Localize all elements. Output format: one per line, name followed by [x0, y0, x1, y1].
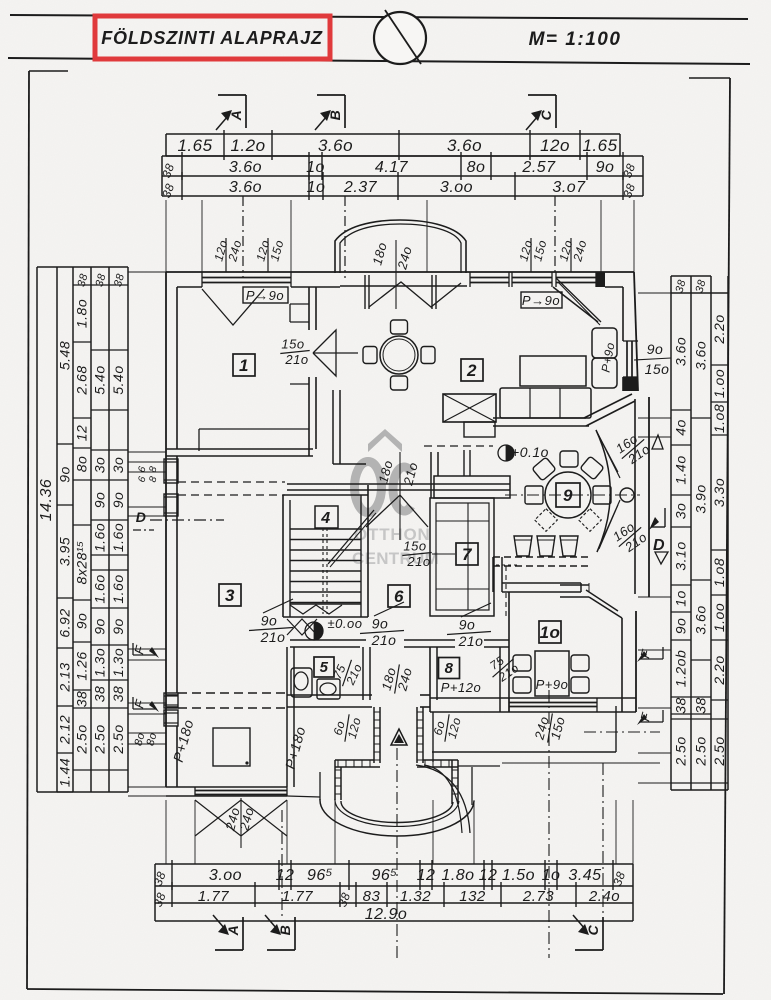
- svg-text:8x28¹⁵: 8x28¹⁵: [74, 541, 90, 585]
- svg-text:9o: 9o: [372, 616, 389, 632]
- svg-text:3.oo: 3.oo: [209, 867, 242, 884]
- svg-text:3.6o: 3.6o: [229, 179, 262, 196]
- svg-text:1.o8: 1.o8: [711, 404, 727, 433]
- svg-text:1.77: 1.77: [282, 888, 313, 905]
- svg-text:1.2ob: 1.2ob: [673, 650, 689, 688]
- svg-text:9o: 9o: [110, 492, 126, 509]
- svg-text:3.6o: 3.6o: [673, 337, 689, 366]
- svg-text:B: B: [277, 925, 293, 936]
- svg-text:3o: 3o: [110, 457, 126, 474]
- svg-text:C: C: [538, 109, 554, 120]
- svg-text:7: 7: [462, 545, 473, 564]
- svg-text:132: 132: [459, 888, 486, 905]
- svg-text:1.77: 1.77: [198, 888, 229, 905]
- svg-text:+0.1o: +0.1o: [511, 444, 549, 460]
- svg-text:2.2o: 2.2o: [711, 655, 727, 685]
- svg-text:2.37: 2.37: [343, 179, 378, 196]
- svg-text:1.65: 1.65: [177, 136, 212, 155]
- svg-text:3o: 3o: [92, 457, 108, 474]
- svg-text:2.12: 2.12: [57, 715, 73, 745]
- svg-text:FÖLDSZINTI ALAPRAJZ: FÖLDSZINTI ALAPRAJZ: [101, 28, 323, 48]
- svg-text:1.5o: 1.5o: [502, 867, 535, 884]
- svg-text:1.6o: 1.6o: [92, 523, 108, 552]
- svg-text:2: 2: [466, 361, 477, 380]
- svg-text:1: 1: [239, 356, 249, 375]
- svg-text:P→9o: P→9o: [246, 288, 284, 303]
- svg-text:3.6o: 3.6o: [318, 136, 353, 155]
- svg-text:14.36: 14.36: [38, 479, 55, 522]
- svg-text:3.1o: 3.1o: [673, 541, 689, 570]
- svg-text:2.2o: 2.2o: [711, 314, 727, 344]
- svg-text:1o: 1o: [542, 867, 561, 884]
- svg-text:15o: 15o: [403, 539, 426, 554]
- svg-text:6.92: 6.92: [57, 608, 73, 637]
- svg-text:3o: 3o: [673, 503, 689, 520]
- svg-text:38: 38: [74, 691, 90, 708]
- svg-text:B: B: [327, 110, 343, 121]
- svg-text:15o: 15o: [281, 337, 304, 352]
- svg-text:9o: 9o: [74, 613, 90, 630]
- svg-text:9o: 9o: [459, 617, 476, 633]
- svg-text:3.oo: 3.oo: [440, 179, 473, 196]
- svg-text:2.5o: 2.5o: [693, 736, 709, 766]
- svg-text:1.8o: 1.8o: [441, 867, 474, 884]
- svg-text:12: 12: [74, 425, 90, 442]
- svg-text:83: 83: [363, 888, 381, 905]
- svg-text:21o: 21o: [371, 632, 397, 648]
- svg-text:1.6o: 1.6o: [110, 523, 126, 552]
- svg-text:3.45: 3.45: [568, 867, 601, 884]
- svg-text:5: 5: [320, 659, 329, 676]
- svg-text:9o: 9o: [57, 466, 73, 483]
- svg-text:5.4o: 5.4o: [92, 365, 108, 394]
- svg-text:1.o8: 1.o8: [711, 558, 727, 587]
- svg-text:9o: 9o: [92, 618, 108, 635]
- svg-text:12: 12: [479, 867, 498, 884]
- svg-text:3.6o: 3.6o: [693, 341, 709, 370]
- svg-text:2.5o: 2.5o: [74, 724, 90, 754]
- svg-text:1.44: 1.44: [57, 758, 73, 787]
- svg-text:M= 1:100: M= 1:100: [529, 29, 622, 50]
- svg-text:21o: 21o: [458, 633, 484, 649]
- svg-text:P+12o: P+12o: [441, 680, 481, 695]
- svg-text:1.oo: 1.oo: [711, 603, 727, 632]
- svg-text:1o: 1o: [307, 179, 326, 196]
- svg-text:9o: 9o: [647, 341, 664, 357]
- svg-text:D: D: [136, 509, 147, 525]
- svg-text:1.65: 1.65: [582, 136, 617, 155]
- svg-text:1.6o: 1.6o: [110, 574, 126, 603]
- svg-text:9o: 9o: [673, 618, 689, 635]
- svg-text:1o: 1o: [540, 623, 561, 642]
- svg-text:1.oo: 1.oo: [711, 369, 727, 398]
- svg-text:9o: 9o: [92, 492, 108, 509]
- svg-text:12: 12: [417, 867, 436, 884]
- svg-text:3.o7: 3.o7: [552, 179, 586, 196]
- svg-text:2.5o: 2.5o: [110, 724, 126, 754]
- svg-text:12.9o: 12.9o: [365, 906, 408, 923]
- svg-text:3: 3: [225, 586, 235, 605]
- svg-text:3.9o: 3.9o: [693, 484, 709, 513]
- svg-text:2.68: 2.68: [74, 365, 90, 395]
- svg-text:A: A: [228, 110, 244, 122]
- svg-text:96⁵: 96⁵: [307, 867, 333, 884]
- svg-text:1.3o: 1.3o: [110, 648, 126, 677]
- svg-text:2.5o: 2.5o: [711, 736, 727, 766]
- svg-text:4: 4: [320, 510, 330, 527]
- svg-text:2.4o: 2.4o: [588, 888, 620, 905]
- svg-text:5.4o: 5.4o: [110, 365, 126, 394]
- svg-text:2.13: 2.13: [57, 662, 73, 692]
- svg-text:9o: 9o: [261, 613, 278, 629]
- svg-text:8o: 8o: [467, 159, 486, 176]
- svg-text:38: 38: [673, 697, 689, 714]
- svg-text:1.3o: 1.3o: [92, 648, 108, 677]
- svg-text:1.26: 1.26: [74, 651, 90, 680]
- svg-text:12o: 12o: [540, 136, 570, 155]
- svg-text:8: 8: [445, 660, 454, 677]
- svg-text:96⁵: 96⁵: [371, 867, 397, 884]
- svg-text:2.57: 2.57: [521, 159, 556, 176]
- svg-text:3.6o: 3.6o: [693, 605, 709, 634]
- svg-text:38: 38: [92, 686, 108, 703]
- svg-text:5.48: 5.48: [57, 341, 73, 370]
- svg-text:4.17: 4.17: [375, 159, 409, 176]
- svg-text:P+9o: P+9o: [536, 677, 569, 692]
- svg-text:4o: 4o: [673, 419, 689, 436]
- svg-text:2.5o: 2.5o: [92, 724, 108, 754]
- svg-text:38: 38: [110, 686, 126, 703]
- svg-text:15o: 15o: [645, 361, 670, 377]
- svg-text:1.2o: 1.2o: [230, 136, 265, 155]
- svg-text:P→9o: P→9o: [522, 293, 560, 308]
- svg-text:21o: 21o: [284, 352, 308, 367]
- svg-text:1.4o: 1.4o: [673, 455, 689, 484]
- svg-text:1o: 1o: [673, 590, 689, 607]
- svg-text:21o: 21o: [260, 629, 286, 645]
- svg-text:9o: 9o: [110, 618, 126, 635]
- svg-text:12: 12: [276, 867, 295, 884]
- svg-text:38: 38: [693, 697, 709, 714]
- svg-text:3.95: 3.95: [57, 537, 73, 566]
- svg-text:3.6o: 3.6o: [229, 159, 262, 176]
- svg-text:8o: 8o: [74, 456, 90, 473]
- svg-text:A: A: [225, 925, 241, 937]
- svg-text:9o: 9o: [596, 159, 615, 176]
- svg-text:±0.oo: ±0.oo: [328, 616, 363, 631]
- svg-text:1.6o: 1.6o: [92, 574, 108, 603]
- svg-text:3.3o: 3.3o: [711, 478, 727, 507]
- svg-text:3.6o: 3.6o: [447, 136, 482, 155]
- svg-text:1.8o: 1.8o: [74, 299, 90, 328]
- svg-text:C: C: [585, 924, 601, 935]
- svg-text:21o: 21o: [406, 554, 430, 569]
- svg-text:1.32: 1.32: [400, 888, 431, 905]
- svg-text:2.5o: 2.5o: [673, 736, 689, 766]
